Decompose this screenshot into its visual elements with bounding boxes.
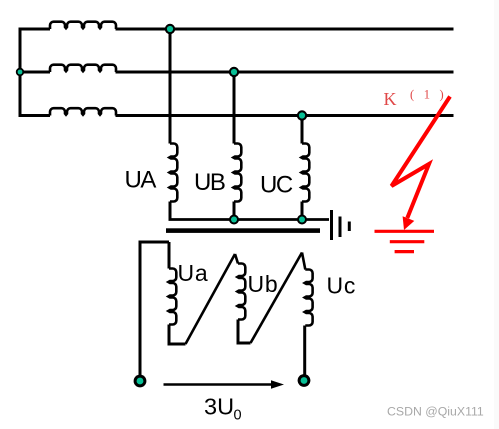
svg-text:CSDN @QiuX111: CSDN @QiuX111 — [387, 405, 484, 419]
svg-text:Uc: Uc — [327, 273, 357, 299]
winding Ua secondary coil — [168, 269, 176, 325]
svg-text:UA: UA — [125, 167, 157, 194]
node bus C tap — [297, 110, 307, 120]
winding Ub top lead — [235, 254, 238, 264]
wire UB bottom — [233, 202, 236, 220]
wire tap from bus B down — [233, 72, 236, 144]
fault bolt K(1) — [392, 97, 451, 219]
node bus A tap — [165, 24, 175, 34]
wire UA bottom — [169, 202, 172, 220]
inductor bus reactor B — [50, 65, 116, 72]
ground primary neutral (black, sideways) — [330, 210, 333, 240]
node terminal right — [298, 374, 311, 387]
wire bus line C left — [19, 114, 51, 117]
wire Ua-Ub diagonal — [186, 254, 236, 344]
fault arrowhead — [403, 216, 415, 230]
wire bus line A right — [116, 28, 454, 31]
wire Ub-Uc diagonal — [251, 253, 303, 344]
wire secondary left lead — [140, 242, 169, 381]
winding UB primary coil — [233, 144, 241, 202]
svg-text:3U: 3U — [204, 394, 234, 420]
node terminal left — [134, 375, 147, 388]
winding UC primary coil — [301, 144, 309, 202]
svg-text:UC: UC — [260, 172, 293, 199]
wire left vertical bus tie — [19, 29, 22, 116]
arrow 3U0 direction — [164, 380, 285, 388]
node neutral B — [229, 215, 239, 225]
winding Ub secondary coil — [237, 264, 245, 320]
wire Ua bottom — [169, 325, 186, 345]
svg-text:K: K — [384, 89, 397, 109]
node bus tie (left) — [16, 68, 24, 76]
winding UA primary coil — [169, 144, 177, 202]
wire Ub bottom — [238, 320, 251, 344]
svg-text:Ub: Ub — [248, 271, 279, 297]
wire bus line B left — [19, 71, 51, 74]
wire Uc bottom lead — [303, 326, 306, 381]
wire bus line B right — [116, 71, 454, 74]
node bus B tap — [229, 67, 239, 77]
transformer core bar — [166, 228, 320, 233]
wire bus line C right — [116, 114, 454, 117]
wire UC bottom — [301, 202, 304, 220]
winding Ua top lead — [168, 242, 171, 269]
svg-text:UB: UB — [194, 169, 225, 196]
wire tap from bus C down — [301, 116, 304, 144]
wire tap from bus A down — [169, 29, 172, 144]
svg-text:( 1 ): ( 1 ) — [410, 88, 447, 102]
wire bus line A left — [19, 28, 51, 31]
inductor bus reactor C — [50, 108, 116, 115]
svg-text:Ua: Ua — [178, 260, 209, 286]
node neutral C — [297, 215, 307, 225]
svg-text:0: 0 — [234, 408, 242, 424]
wire primary neutral line — [169, 218, 330, 221]
ground fault (red) — [375, 231, 435, 251]
winding Uc secondary coil — [305, 270, 313, 326]
winding Uc top lead — [302, 253, 305, 270]
inductor bus reactor A — [50, 22, 116, 29]
